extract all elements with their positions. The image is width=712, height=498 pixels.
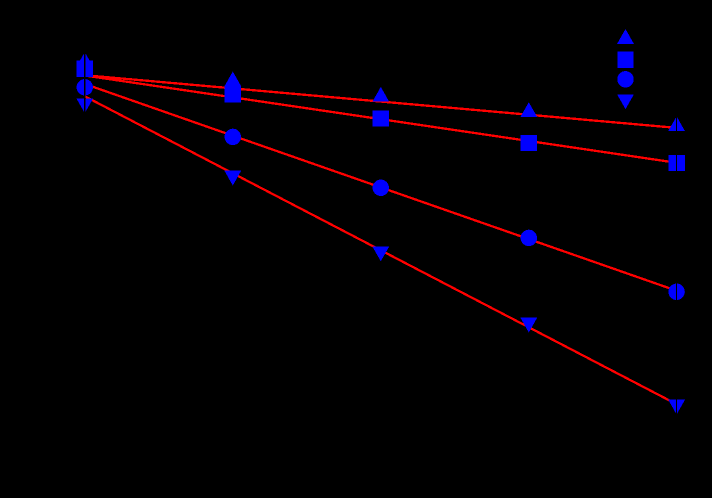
- marker tri-up p2: [224, 72, 241, 87]
- marker tri-up p5: [668, 116, 685, 131]
- marker circle p5: [668, 284, 684, 300]
- marker tri-up p3: [372, 87, 389, 102]
- marker square p4: [521, 135, 537, 151]
- fit line: triangle-up series: [85, 75, 677, 128]
- marker circle p1: [77, 79, 93, 95]
- triangle-down series markers: [76, 98, 685, 414]
- legend tri-down: [617, 94, 634, 109]
- marker tri-down p2: [224, 171, 241, 186]
- marker circle p2: [225, 129, 241, 145]
- marker square p5: [668, 155, 684, 171]
- fit line: square series: [85, 76, 677, 163]
- marker tri-up p4: [520, 102, 537, 117]
- legend circle: [617, 71, 633, 87]
- marker tri-down p5: [668, 400, 685, 415]
- fit line: triangle-down series: [85, 96, 677, 404]
- legend markers: [617, 29, 634, 109]
- marker square p2: [225, 86, 241, 102]
- marker square p3: [373, 110, 389, 126]
- circle series markers: [77, 79, 685, 300]
- right axis spine (black, visible over markers): [676, 45, 678, 440]
- legend square: [617, 51, 633, 67]
- marker tri-down p3: [372, 247, 389, 262]
- marker tri-up p1: [76, 52, 93, 67]
- square series markers: [77, 60, 685, 171]
- fit line: circle series: [85, 84, 677, 291]
- marker tri-down p1: [76, 98, 93, 113]
- marker tri-down p4: [520, 318, 537, 333]
- left axis spine (black, visible over markers): [84, 45, 86, 440]
- marker circle p4: [521, 230, 537, 246]
- marker circle p3: [373, 180, 389, 196]
- marker square p1: [77, 60, 93, 76]
- triangle-up series markers: [76, 52, 685, 131]
- legend tri-up: [617, 29, 634, 44]
